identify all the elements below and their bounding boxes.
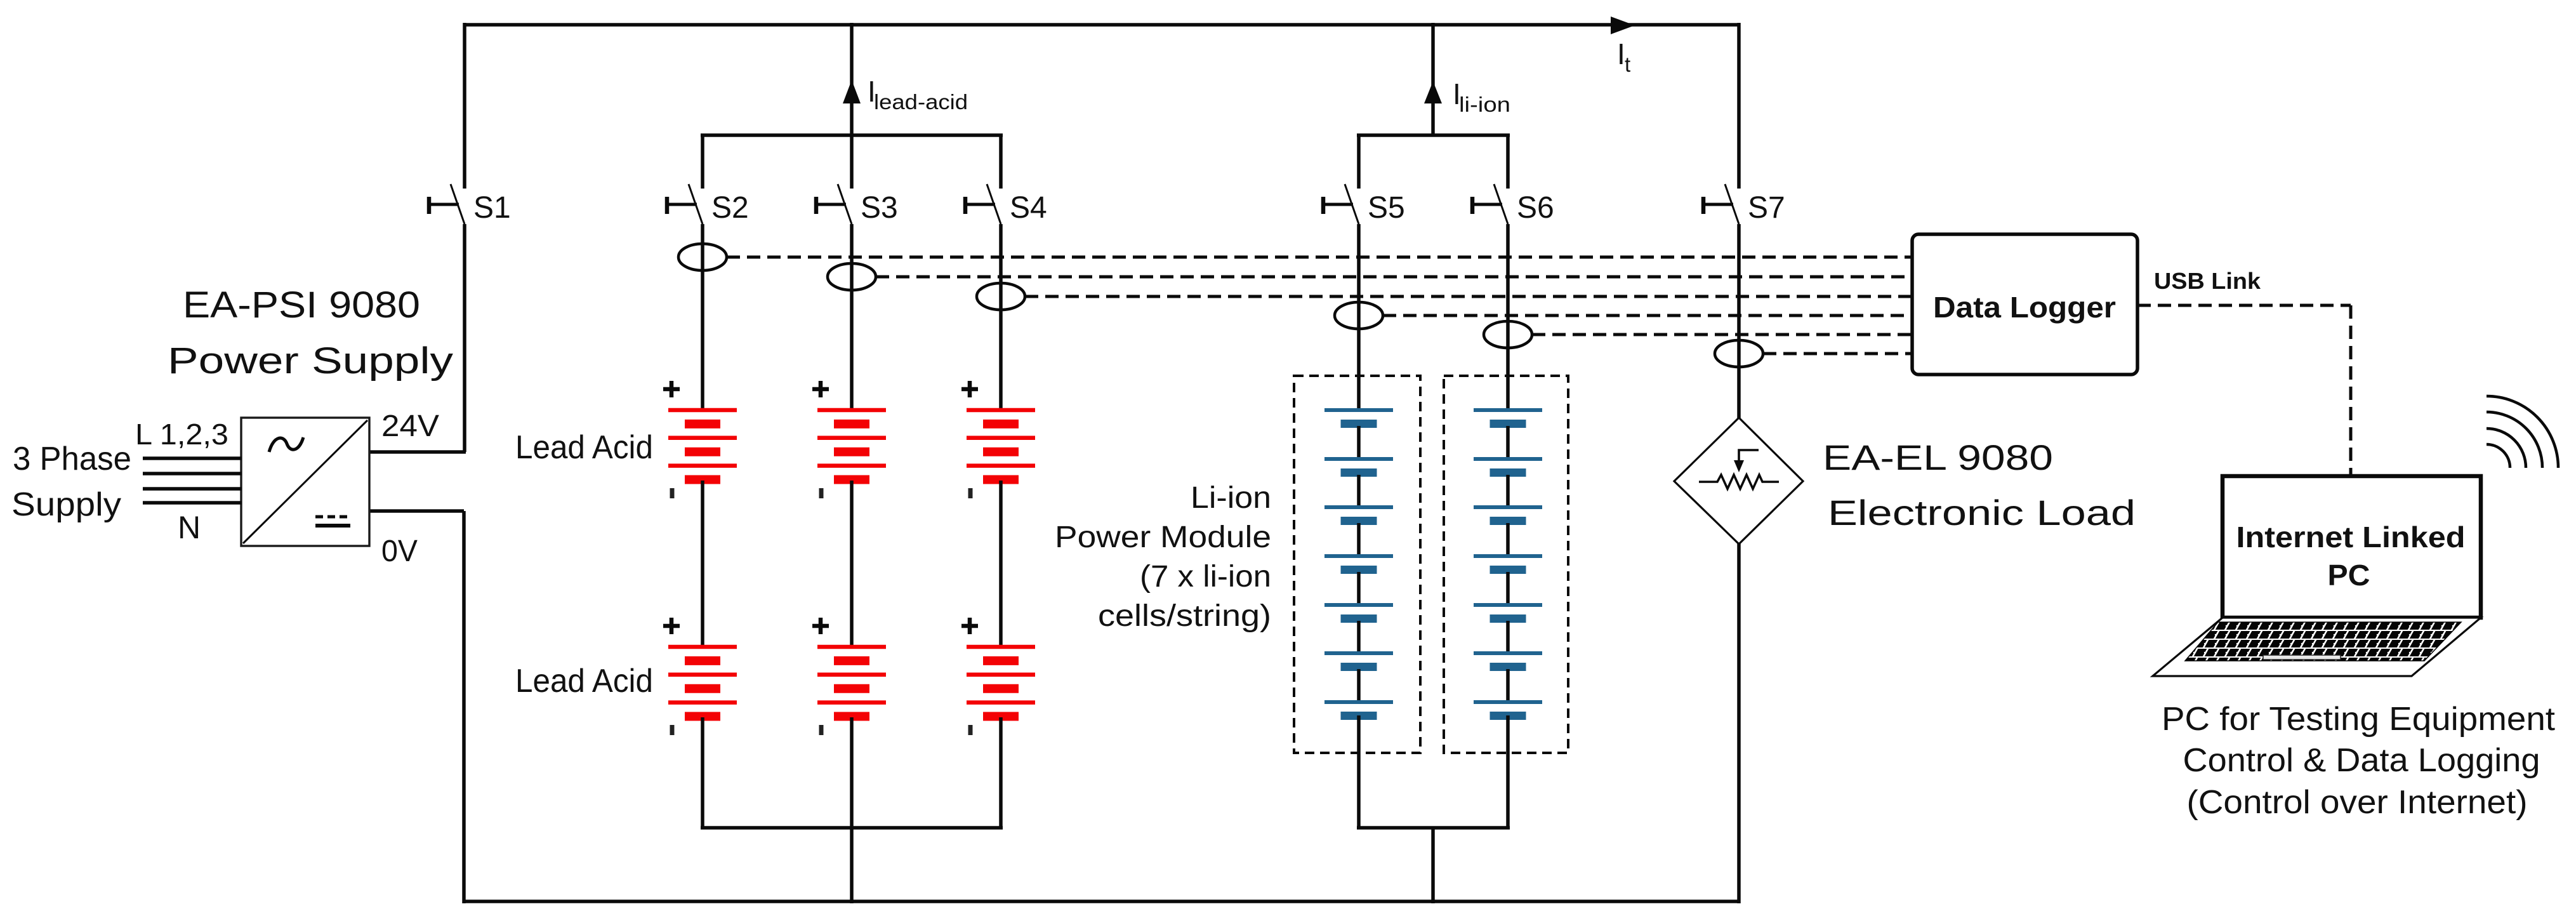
svg-text:S6: S6 xyxy=(1517,191,1554,225)
svg-text:PC: PC xyxy=(2328,559,2370,592)
svg-text:Lead Acid: Lead Acid xyxy=(515,429,653,466)
svg-text:L 1,2,3: L 1,2,3 xyxy=(135,418,228,451)
svg-text:0V: 0V xyxy=(381,535,418,568)
svg-text:Electronic Load: Electronic Load xyxy=(1828,493,2136,533)
svg-text:li-ion: li-ion xyxy=(1459,93,1510,116)
svg-text:S1: S1 xyxy=(473,191,511,225)
svg-text:3 Phase: 3 Phase xyxy=(13,441,131,477)
svg-text:(Control over Internet): (Control over Internet) xyxy=(2187,784,2528,821)
svg-text:EA-PSI 9080: EA-PSI 9080 xyxy=(183,284,420,326)
svg-text:S3: S3 xyxy=(861,191,898,225)
svg-text:Power Supply: Power Supply xyxy=(168,340,453,382)
svg-text:Control & Data Logging: Control & Data Logging xyxy=(2183,742,2540,779)
svg-text:cells/string): cells/string) xyxy=(1098,599,1271,633)
svg-text:I: I xyxy=(1617,37,1625,70)
svg-text:S5: S5 xyxy=(1368,191,1405,225)
svg-text:Lead Acid: Lead Acid xyxy=(515,663,653,700)
svg-text:(7 x li-ion: (7 x li-ion xyxy=(1140,560,1271,594)
svg-text:EA-EL 9080: EA-EL 9080 xyxy=(1823,437,2053,477)
svg-text:Supply: Supply xyxy=(11,486,121,523)
svg-text:S2: S2 xyxy=(711,191,749,225)
svg-text:PC for Testing Equipment: PC for Testing Equipment xyxy=(2162,701,2556,738)
svg-text:Power Module: Power Module xyxy=(1055,521,1271,554)
svg-text:Data Logger: Data Logger xyxy=(1933,291,2116,324)
svg-text:t: t xyxy=(1625,53,1630,76)
svg-text:Internet Linked: Internet Linked xyxy=(2236,521,2466,554)
svg-text:N: N xyxy=(178,510,201,545)
svg-text:USB Link: USB Link xyxy=(2154,268,2261,294)
svg-text:lead-acid: lead-acid xyxy=(874,90,968,114)
svg-text:Li-ion: Li-ion xyxy=(1191,481,1271,515)
svg-text:24V: 24V xyxy=(381,409,439,443)
svg-text:S7: S7 xyxy=(1748,191,1785,225)
svg-text:S4: S4 xyxy=(1010,191,1047,225)
